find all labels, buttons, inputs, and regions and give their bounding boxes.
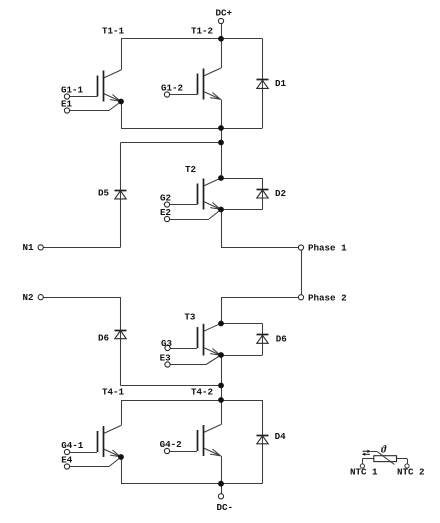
svg-text:D6: D6: [98, 333, 109, 344]
svg-text:E2: E2: [160, 207, 171, 218]
svg-text:G4-1: G4-1: [61, 440, 84, 451]
svg-text:D2: D2: [275, 188, 286, 199]
svg-text:Phase 2: Phase 2: [308, 293, 347, 304]
svg-text:G4-2: G4-2: [160, 439, 182, 450]
svg-text:E4: E4: [61, 455, 73, 466]
svg-text:DC-: DC-: [217, 502, 234, 513]
svg-text:D6: D6: [276, 334, 287, 345]
svg-text:ϑ: ϑ: [381, 445, 387, 456]
svg-text:Phase 1: Phase 1: [308, 243, 347, 254]
svg-text:G1-1: G1-1: [61, 85, 84, 96]
svg-text:N1: N1: [23, 242, 35, 253]
svg-text:D4: D4: [275, 431, 287, 442]
svg-text:G2: G2: [160, 193, 171, 204]
svg-text:E3: E3: [160, 353, 172, 364]
svg-text:N2: N2: [23, 292, 34, 303]
svg-text:G3: G3: [161, 338, 173, 349]
svg-text:G1-2: G1-2: [161, 83, 183, 94]
svg-text:DC+: DC+: [216, 8, 233, 19]
svg-text:E1: E1: [61, 99, 73, 110]
svg-text:T1-1: T1-1: [102, 25, 125, 36]
svg-text:D1: D1: [275, 78, 287, 89]
svg-text:T2: T2: [185, 164, 196, 175]
svg-text:D5: D5: [98, 187, 110, 198]
svg-text:NTC 2: NTC 2: [397, 466, 425, 477]
svg-text:T4-2: T4-2: [191, 387, 213, 398]
svg-text:T1-2: T1-2: [191, 25, 213, 36]
svg-text:T3: T3: [184, 311, 196, 322]
svg-text:T4-1: T4-1: [102, 387, 125, 398]
